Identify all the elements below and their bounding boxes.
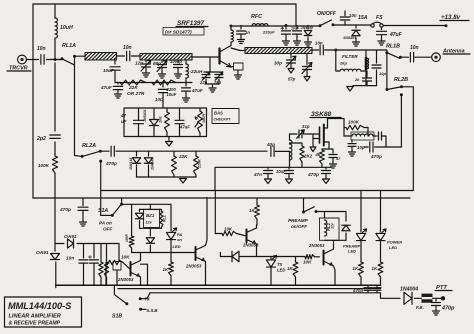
svg-text:22K: 22K [178, 154, 188, 159]
trimpot 180R [195, 108, 206, 137]
resistor 4k7 source [315, 149, 330, 167]
wire rl2 top [316, 212, 346, 222]
capacitor 10n sw [340, 11, 357, 25]
capacitor 47uF bias3 [175, 108, 190, 137]
wire collector [230, 25, 233, 46]
svg-text:1N5401: 1N5401 [143, 109, 147, 122]
label +13.8v [440, 14, 469, 21]
wire RX tap down [75, 56, 83, 156]
inductor filter choke [336, 50, 366, 71]
label 3SK88 [310, 111, 341, 118]
svg-text:22K: 22K [128, 85, 138, 91]
svg-text:2N3053: 2N3053 [185, 264, 202, 269]
capacitor 470p rx [105, 146, 267, 167]
title text [8, 301, 72, 327]
svg-text:220uF: 220uF [262, 30, 275, 35]
node RL1B common [385, 51, 388, 54]
svg-text:10uF: 10uF [103, 68, 114, 73]
led preamp [343, 229, 367, 262]
svg-text:10uF: 10uF [276, 169, 286, 174]
svg-text:100K: 100K [38, 163, 50, 168]
wire filter bottom [347, 86, 377, 91]
svg-text:47: 47 [335, 157, 341, 161]
buzzer BZ1 [144, 209, 160, 227]
svg-text:470p: 470p [307, 172, 319, 178]
svg-text:470p: 470p [370, 154, 382, 160]
wire PTT line [150, 292, 381, 294]
fuse FS [371, 15, 383, 27]
inductor RFC [251, 14, 268, 26]
svg-text:10n: 10n [315, 41, 323, 46]
transistor Q2 2N3053 [117, 261, 141, 283]
wire RL2B NC to preamp in [402, 87, 414, 191]
diode 1N5401 bias [143, 108, 159, 137]
capacitor source bypass [329, 149, 341, 168]
svg-text:FS: FS [376, 15, 383, 21]
capacitor 10n input [37, 46, 46, 64]
capacitor 47n preamp [253, 167, 273, 183]
wire q2 aux [141, 264, 148, 285]
svg-text:S1A: S1A [98, 208, 108, 214]
inductor collector choke [231, 30, 233, 42]
svg-text:-22uH: -22uH [190, 69, 203, 74]
label SD1477 [163, 28, 204, 36]
svg-text:BZ1: BZ1 [146, 213, 155, 218]
trimmer 68p [153, 60, 167, 78]
capacitor 220uF rail [262, 24, 291, 45]
svg-text:POWER: POWER [387, 240, 402, 245]
wire q3 emitter [205, 262, 207, 286]
wire base [192, 56, 219, 58]
switch on/off [317, 11, 337, 27]
resistor 10K q4 [303, 255, 320, 265]
svg-text:(or SD1477): (or SD1477) [165, 30, 192, 36]
capacitor 47uF bias2 [120, 108, 144, 137]
svg-text:on/OFF: on/OFF [291, 224, 307, 229]
wire q4 collector [333, 240, 335, 249]
wire fet drain [328, 119, 345, 128]
svg-text:LED: LED [173, 244, 181, 249]
diode 1N4004 [400, 287, 422, 305]
wire q2 emitter [140, 277, 142, 285]
capacitor 470p ptt1 [352, 285, 372, 293]
wire S1A to cluster [122, 198, 171, 204]
svg-text:40p: 40p [266, 142, 275, 147]
svg-text:12p: 12p [135, 61, 143, 66]
wire power led feed [380, 191, 382, 233]
switch S1B [112, 285, 157, 319]
capacitor 470p ptt2 [373, 285, 381, 293]
capacitor 470p gnd [307, 167, 331, 183]
svg-text:47n: 47n [253, 172, 262, 177]
resistor 22K [120, 80, 146, 97]
wire q2 q3 node [132, 252, 195, 254]
svg-text:1N4148: 1N4148 [151, 158, 155, 170]
svg-text:470p: 470p [352, 288, 363, 293]
svg-text:2N3053: 2N3053 [308, 243, 325, 248]
inductor 22uH [186, 60, 203, 78]
relay contact RL1B [386, 44, 402, 59]
resistor 10K q2 col [125, 234, 134, 253]
node supply end [445, 24, 448, 27]
wire buzzer top [132, 204, 160, 236]
wire ptt corner [381, 293, 401, 299]
svg-text:12v: 12v [146, 221, 153, 225]
diode buzzer [135, 209, 143, 228]
wire ground bus [56, 284, 381, 286]
svg-text:47uF: 47uF [191, 88, 203, 93]
svg-text:2K2: 2K2 [303, 154, 313, 159]
svg-text:1K: 1K [163, 267, 169, 272]
svg-text:on: on [177, 237, 182, 242]
resistor 27R [152, 80, 176, 85]
resistor det2 [104, 244, 119, 286]
svg-text:2p2: 2p2 [36, 136, 46, 142]
diode ctl left [232, 251, 239, 262]
inductor L1 stripline [78, 53, 122, 61]
wire ground bus 2 [118, 288, 381, 290]
wire control rail [33, 197, 410, 199]
svg-text:TX: TX [277, 262, 283, 267]
wire input [26, 59, 38, 61]
svg-text:31p: 31p [302, 124, 310, 129]
wire top rail [33, 3, 296, 5]
wire ctl mid [220, 253, 305, 257]
wire rl2 bottom [325, 239, 347, 241]
inductor filter L [339, 51, 369, 86]
label SRF1397 [176, 20, 208, 27]
capacitor 2200u [155, 83, 177, 103]
svg-text:LED: LED [348, 249, 356, 254]
led PA on [166, 228, 182, 262]
svg-text:OA91: OA91 [64, 234, 77, 240]
capacitor 2p2 [36, 135, 60, 142]
svg-text:OFF: OFF [103, 227, 112, 232]
relay coil RL1 [160, 209, 167, 228]
transistor Q3 2N3053 [185, 246, 206, 269]
svg-text:1N4148: 1N4148 [129, 158, 133, 170]
svg-text:BAS: BAS [214, 111, 223, 116]
transistor Q4 2N3053 [308, 243, 334, 266]
svg-text:FILTER: FILTER [342, 54, 358, 59]
svg-text:47: 47 [120, 113, 127, 118]
svg-text:180R: 180R [202, 114, 206, 123]
inductor preamp out [344, 132, 377, 140]
wire left rail [32, 4, 34, 198]
wire input2 [47, 59, 62, 61]
trimmer 30p out [274, 54, 296, 74]
capacitor 47uF rail [377, 27, 403, 45]
svg-text:OA91: OA91 [36, 250, 49, 256]
switch S1A [98, 203, 123, 232]
capacitor 10n interstage [117, 45, 141, 61]
led TX [266, 255, 285, 285]
wire to ant cap [400, 56, 408, 58]
resistor 1K q3b col [249, 198, 259, 228]
wire screen box [101, 190, 413, 192]
svg-text:470p: 470p [105, 161, 117, 167]
resistor 1K pa-led [163, 262, 174, 285]
relay RL2 coil [320, 218, 340, 240]
capacitor 1000p [170, 59, 183, 78]
svg-text:uF: uF [121, 119, 127, 124]
node x55 junction [54, 58, 62, 61]
wire q3b emitter [256, 244, 258, 257]
svg-text:57p: 57p [288, 77, 296, 82]
wire supply rail +13.8V [231, 25, 446, 26]
trimmer 570p out [288, 54, 312, 82]
resistor 22K rx [172, 151, 189, 177]
svg-text:1K: 1K [287, 266, 293, 271]
diode 1N4148 rail [301, 26, 313, 47]
resistor 10K q2 base [106, 255, 130, 286]
svg-text:68p: 68p [153, 61, 161, 66]
pot det [113, 262, 121, 286]
trimmer 22p base [199, 57, 223, 92]
wire ctl verts [206, 191, 216, 246]
diode d2 ctl [146, 238, 154, 253]
wire RL2A NC drop [100, 161, 102, 215]
resistor 10E [159, 108, 170, 137]
node filter in [334, 49, 337, 52]
capacitor 10n ant [410, 45, 432, 62]
svg-text:1K: 1K [372, 266, 378, 271]
capacitor 10p preamp [348, 140, 365, 156]
svg-text:1K: 1K [249, 208, 255, 213]
inductor L2 stripline [134, 54, 198, 61]
transistor Q1 SRF1397 [220, 46, 232, 68]
capacitor 10uF det [89, 244, 99, 286]
svg-text:10n: 10n [349, 13, 357, 18]
svg-text:10uF: 10uF [167, 92, 177, 97]
label 15A [358, 15, 368, 21]
diode 1N5401 clamp [343, 25, 360, 46]
wire RL2B drop [385, 53, 388, 91]
svg-text:S1B: S1B [112, 314, 122, 320]
svg-text:10E: 10E [159, 116, 163, 123]
wire rx gnd bus [137, 177, 197, 183]
label filter [342, 54, 358, 59]
svg-text:10K: 10K [121, 255, 130, 260]
svg-text:1K: 1K [353, 266, 359, 271]
connector antenna [432, 53, 441, 62]
svg-text:RL1: RL1 [163, 215, 167, 222]
svg-text:MML144/100-S: MML144/100-S [8, 301, 72, 311]
svg-text:F.B.: F.B. [416, 305, 424, 310]
wire collector to L3 [231, 48, 245, 51]
diode 1N4148 b [144, 151, 154, 177]
wire q2 collector [140, 253, 142, 261]
inductor L3 stripline [239, 48, 317, 54]
svg-text:47uF: 47uF [100, 85, 112, 90]
capacitor 10n det [66, 244, 88, 286]
svg-text:10K: 10K [224, 227, 233, 232]
wire buzzer bottom [140, 227, 162, 236]
capacitor filter C2 [354, 71, 372, 86]
wire preamp gnd bus [215, 167, 331, 190]
svg-text:RL2A: RL2A [82, 143, 96, 149]
capacitor 100n rail [291, 26, 302, 46]
svg-text:PREAMP: PREAMP [288, 218, 309, 223]
svg-text:10n: 10n [123, 45, 132, 51]
capacitor 470p ctl [59, 198, 88, 226]
resistor 10K q3b base [215, 227, 246, 236]
svg-text:10p: 10p [379, 71, 386, 76]
capacitor 470p preamp out [364, 142, 401, 160]
capacitor 40p preamp in [266, 142, 290, 156]
ferrite bead FB [416, 294, 442, 310]
wire RL1A to L1 [75, 55, 86, 57]
transistor U1 3SK88 FET [310, 119, 329, 152]
ground bias [166, 137, 173, 147]
wire RL2A NO [100, 150, 109, 152]
resistor 100K rx [38, 156, 58, 173]
capacitor 47uF bias [100, 83, 123, 99]
svg-text:100K: 100K [348, 120, 360, 125]
svg-text:1N4004: 1N4004 [400, 287, 418, 293]
svg-text:ON/OFF: ON/OFF [317, 11, 337, 17]
node PTT [441, 296, 445, 300]
capacitor out c [379, 132, 387, 147]
svg-text:220R: 220R [198, 159, 202, 169]
diode RL2 flyback [342, 225, 350, 240]
switch preamp on/off [288, 198, 318, 229]
capacitor filter C [372, 51, 386, 86]
capacitor 100n preamp [276, 167, 294, 183]
wire preamp led feed [360, 191, 362, 233]
svg-text:10n: 10n [66, 256, 74, 262]
svg-text:47uF: 47uF [389, 32, 403, 38]
svg-text:10K: 10K [303, 260, 312, 265]
svg-text:4k: 4k [315, 152, 321, 157]
resistor 1K preamp led [353, 262, 364, 285]
box BAS checkpoint [212, 109, 239, 124]
trimmer 12p [135, 60, 151, 77]
resistor 100K preamp [344, 120, 368, 137]
svg-text:2N3053: 2N3053 [117, 277, 134, 282]
label antenna [442, 49, 470, 55]
svg-text:PA on: PA on [99, 221, 112, 226]
relay contact RL2B [387, 77, 408, 96]
relay contact RL1A [62, 43, 76, 65]
svg-text:2kp: 2kp [339, 61, 347, 66]
terminal J1 transceiver [18, 55, 27, 64]
svg-text:1n: 1n [245, 30, 250, 35]
diode OA91 series [56, 234, 119, 248]
svg-text:LINEAR AMPLIFIER: LINEAR AMPLIFIER [9, 314, 61, 320]
svg-text:15A: 15A [358, 15, 368, 21]
svg-text:LED: LED [389, 245, 397, 250]
svg-text:100R: 100R [125, 234, 129, 242]
wire bias tap [162, 98, 164, 108]
resistor 2K2 preamp [290, 143, 313, 167]
svg-text:RL2B: RL2B [394, 77, 408, 83]
svg-text:CHECKPT: CHECKPT [214, 118, 232, 122]
svg-text:1N5401: 1N5401 [343, 36, 356, 40]
svg-text:RFC: RFC [251, 14, 262, 20]
resistor 1K power led [372, 262, 383, 285]
wire bias bus [115, 78, 192, 83]
wire PA LED feed [170, 204, 172, 231]
capacitor 1n collector [237, 26, 251, 44]
resistor 1K tx [287, 257, 298, 286]
wire bias loop [124, 108, 207, 137]
transistor Q3b 2N3053 [242, 228, 259, 248]
svg-text:S.S.B: S.S.B [147, 308, 158, 313]
svg-text:10uH: 10uH [60, 25, 73, 31]
capacitor 470p ptt3 [432, 298, 455, 315]
diode OA91 shunt [36, 250, 60, 260]
node input junction [61, 57, 64, 60]
label TRCVE [7, 66, 31, 72]
wire q4 emitter [334, 266, 336, 285]
svg-text:1N4148: 1N4148 [301, 26, 313, 30]
resistor emitter [231, 63, 243, 79]
svg-text:RL1A: RL1A [62, 43, 76, 49]
svg-text:470p: 470p [59, 207, 71, 213]
svg-text:30p: 30p [274, 61, 282, 66]
title box [5, 297, 82, 327]
capacitor 10uF [103, 60, 120, 83]
wire right drop to supply [295, 4, 297, 26]
svg-text:10n: 10n [410, 45, 419, 51]
wire L3 out [313, 49, 319, 51]
led power [376, 229, 402, 262]
resistor 100K det [99, 244, 103, 286]
inductor 10uH [55, 18, 73, 38]
resistor 220R rx [194, 151, 202, 177]
diode 1N4148 a [129, 151, 141, 177]
capacitor 47uF L2 [182, 83, 203, 103]
wire rail x55 [54, 4, 57, 288]
svg-text:2k: 2k [354, 78, 360, 82]
svg-text:LED: LED [277, 268, 285, 273]
wire RL2B NO drop [400, 95, 402, 147]
label PTT [435, 285, 452, 291]
svg-text:& RECEIVE PREAMP: & RECEIVE PREAMP [9, 321, 61, 327]
svg-text:47uF: 47uF [179, 125, 190, 130]
svg-text:10n: 10n [37, 46, 46, 52]
svg-text:OR 27R: OR 27R [127, 91, 145, 97]
svg-text:RL1B: RL1B [386, 44, 400, 50]
svg-text:1000p: 1000p [170, 59, 182, 64]
capacitor 10n out [315, 41, 387, 55]
trimmer 31p preamp [290, 124, 314, 138]
relay contact RL2A [81, 143, 103, 163]
svg-text:470p: 470p [441, 306, 455, 312]
inductor preamp L [290, 134, 292, 167]
